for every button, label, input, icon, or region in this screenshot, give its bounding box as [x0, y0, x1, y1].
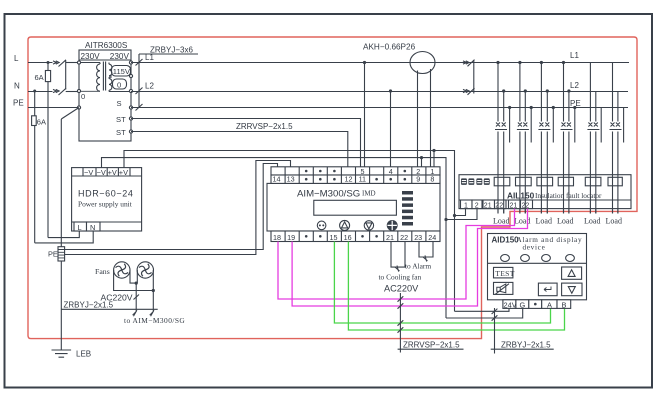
wire S/PE to right — [131, 107, 628, 109]
fans motor right — [137, 262, 153, 278]
wire N switch to transformer — [66, 91, 79, 93]
svg-text:6A: 6A — [35, 73, 44, 82]
slash on fan wire — [134, 295, 140, 300]
load branch group 5: L1 wire — [589, 63, 591, 214]
arrow AC220V into 21-22 — [395, 266, 400, 272]
svg-text:18: 18 — [273, 233, 281, 242]
AIL150 terminal 21b — [509, 200, 521, 209]
wire PE incoming — [28, 107, 79, 109]
fuse FU1 6A on L drop — [47, 63, 49, 238]
junction L2 voltage tap — [389, 89, 392, 92]
svg-text:PE: PE — [48, 250, 58, 259]
svg-text:Load: Load — [606, 217, 622, 226]
AIL150 insulation fault locator box — [459, 175, 631, 209]
svg-text:AKH−0.66P26: AKH−0.66P26 — [363, 43, 416, 52]
svg-text:to Alarm: to Alarm — [405, 261, 431, 270]
label 115V boxed — [112, 66, 131, 77]
wire L incoming — [28, 62, 53, 64]
RS485 wire AIM18 to AIL150 21b (magenta) — [278, 209, 515, 299]
AID150 button down — [562, 283, 582, 296]
arrow to AIM left pair — [133, 310, 154, 316]
AID150 button TEST — [494, 267, 513, 278]
svg-text:ZRBYJ−2x1.5: ZRBYJ−2x1.5 — [64, 301, 114, 310]
fuse FU2 6A on N drop — [34, 91, 36, 243]
svg-text:TEST: TEST — [495, 269, 514, 278]
svg-text:IMD: IMD — [362, 190, 376, 198]
svg-text:23: 23 — [414, 233, 422, 242]
load branch group 3: PE stub — [552, 108, 554, 143]
breaker QF main on L1 — [463, 60, 475, 67]
breaker group 3 — [538, 123, 550, 130]
arrow alarm out — [423, 255, 428, 261]
wire L switch to transformer — [66, 62, 79, 64]
RS485 wire AIM15 to AID150 A (green) — [334, 242, 550, 324]
load wires overlay through AIL150 — [498, 175, 618, 214]
load branch group 4: L1 wire — [563, 63, 565, 214]
wire HDR L to fuse FU1 — [48, 231, 79, 238]
AIM bottom strip dots — [305, 235, 308, 238]
svg-text:device: device — [523, 244, 546, 252]
svg-text:−V: −V — [97, 168, 106, 177]
transformer terminals right — [129, 61, 132, 64]
load branch group 1: L1 wire — [497, 63, 499, 214]
AIL150 indicator square 2 — [468, 178, 474, 185]
svg-text:24: 24 — [428, 233, 436, 242]
svg-text:L: L — [14, 54, 19, 63]
wire N incoming — [28, 91, 53, 93]
junction N-fuse tap — [33, 90, 36, 93]
AIM top terminal strip rows — [271, 167, 440, 175]
svg-text:19: 19 — [287, 233, 295, 242]
svg-text:ZRRVSP−2x1.5: ZRRVSP−2x1.5 — [403, 340, 460, 349]
wire L1 sense to AIM 5 — [364, 63, 366, 167]
svg-text:2: 2 — [475, 202, 479, 209]
AIL150 indicator square 3 — [476, 178, 482, 185]
svg-text:AIM−M300/SG: AIM−M300/SG — [297, 189, 360, 200]
load branch group 6: L2 wire — [617, 91, 619, 214]
svg-text:L: L — [78, 223, 82, 232]
load branch group 2: PE stub — [530, 108, 532, 143]
transformer secondary winding 115V tap — [109, 63, 112, 76]
svg-text:L2: L2 — [145, 82, 154, 91]
AIM top strip cell dividers — [285, 167, 426, 184]
AIL150 terminal 22b — [521, 200, 533, 209]
svg-text:ST: ST — [116, 128, 126, 137]
AIL150 CT window 4 — [558, 177, 573, 186]
RS485 wire AIM16 to AID150 B (green) — [348, 242, 564, 331]
AIM-M300/SG main body — [267, 183, 440, 231]
HDR-60-24 power supply box — [72, 168, 142, 231]
svg-text:HDR−60−24: HDR−60−24 — [78, 189, 133, 199]
AID150 lamp 1 — [501, 255, 510, 262]
svg-text:Power supply unit: Power supply unit — [78, 200, 133, 209]
svg-text:AIL150: AIL150 — [507, 190, 535, 200]
svg-text:AITR6300S: AITR6300S — [85, 41, 128, 50]
cable label ZRRVSP-2x1.5 bottom with leader — [399, 293, 401, 353]
svg-text:A: A — [547, 300, 552, 309]
transformer terminals left — [77, 61, 80, 64]
AIL150 terminal 1 — [461, 200, 473, 209]
fan wiring outer — [114, 270, 154, 291]
load branch group 2: L2 wire — [524, 91, 526, 214]
breaker QF tie — [473, 61, 475, 94]
junction L-fuse tap — [47, 61, 50, 64]
AID150 alarm display box — [488, 234, 587, 300]
svg-text:21: 21 — [484, 202, 492, 209]
svg-text:230V: 230V — [110, 52, 130, 61]
svg-text:8: 8 — [430, 175, 434, 184]
wire PE to AIM 14 (staircase outer) — [65, 161, 291, 255]
svg-text:S: S — [117, 99, 122, 108]
load branch group 3: L1 wire — [540, 63, 542, 214]
AIL150 CT window 1 — [494, 177, 510, 186]
AIL150 indicator square 1 — [461, 178, 467, 185]
svg-text:Load: Load — [557, 217, 573, 226]
AID150 button enter — [538, 283, 557, 296]
wire 0V to AID150 G — [446, 308, 523, 318]
svg-text:Load: Load — [493, 217, 509, 226]
svg-text:to AIM−M300/SG: to AIM−M300/SG — [124, 316, 185, 325]
AIL150 terminal 2 — [472, 200, 482, 209]
AIL150 CT window 3 — [537, 177, 553, 186]
AID150 terminal A — [542, 300, 557, 309]
svg-text:AC220V: AC220V — [384, 283, 419, 293]
AID150 button mute — [494, 282, 513, 294]
cable label ZRBYJ-2x1.5 bottom right with leader — [494, 308, 496, 354]
AIM button menu — [317, 221, 326, 230]
AIM button test fan — [387, 221, 397, 231]
svg-text:ZRBYJ−2x1.5: ZRBYJ−2x1.5 — [501, 340, 551, 349]
wire PE diagonal to transformer S — [61, 108, 79, 120]
AID150 terminal dot — [529, 300, 542, 309]
svg-text:22: 22 — [400, 233, 408, 242]
svg-text:1: 1 — [464, 202, 468, 209]
fan wiring inner — [130, 270, 137, 283]
svg-text:PE: PE — [13, 99, 24, 108]
breaker group 6 — [610, 123, 622, 130]
svg-text:4: 4 — [389, 167, 393, 176]
svg-text:Load: Load — [584, 217, 600, 226]
AIM top strip dots lower row — [305, 178, 308, 181]
svg-text:Load: Load — [536, 217, 552, 226]
transformer primary winding — [97, 63, 100, 92]
svg-text:L1: L1 — [570, 51, 579, 60]
transformer secondary winding lower — [109, 77, 131, 91]
load branch group 5: L2 wire — [595, 91, 597, 214]
RS485 wire AIM19 to AIL150 22b (magenta) — [292, 209, 527, 306]
breaker group 4 — [561, 123, 573, 130]
AID150 terminal B — [557, 300, 571, 309]
fans motor left — [114, 262, 130, 278]
svg-text:L2: L2 — [570, 81, 579, 90]
load branch group 3: L2 wire — [546, 91, 548, 214]
AIM side connector bars — [402, 191, 413, 195]
transformer terminal PE left — [77, 106, 80, 109]
svg-text:+V: +V — [108, 168, 117, 177]
breaker group 2 — [517, 123, 529, 130]
load branch group 4: L2 wire — [568, 91, 570, 214]
svg-text:N: N — [14, 82, 20, 91]
svg-text:Fans: Fans — [95, 267, 110, 276]
load branch group 1: L2 wire — [503, 91, 505, 214]
HDR top terminal strip — [72, 175, 142, 177]
wire HDR N to fuse FU2 — [35, 231, 93, 243]
AIL150 CT window 6 — [608, 177, 622, 186]
svg-text:24V: 24V — [504, 300, 517, 309]
load branch group 4: PE stub — [574, 108, 576, 143]
load branch group 1: PE stub — [509, 108, 511, 143]
junction bus drop to AIM 2 — [420, 156, 423, 159]
svg-text:ST: ST — [116, 115, 126, 124]
load branch group 2: L1 wire — [519, 63, 521, 214]
AID150 panel divider — [488, 262, 587, 264]
red boundary wire loop — [28, 37, 637, 339]
breaker group 1 — [495, 123, 507, 130]
wire 24V to AID150 24V — [455, 308, 510, 311]
AIL150 indicator square 4 — [484, 178, 490, 185]
HDR bottom terminal strip — [72, 221, 142, 223]
wire L2 sense to AIM 4 — [390, 91, 392, 167]
switch QS main 2-pole: N pole — [53, 88, 66, 95]
AIL150 CT window 5 — [585, 177, 601, 186]
svg-text:L1: L1 — [145, 53, 154, 62]
svg-text:2: 2 — [416, 167, 420, 176]
load branch group 6: PE stub — [623, 108, 625, 143]
wire AIM 21-22 AC220V input — [391, 242, 405, 268]
svg-text:AID150: AID150 — [492, 235, 520, 244]
ground LEB — [52, 350, 72, 357]
breaker QF main on L2 — [463, 88, 475, 95]
label 0 boxed — [113, 79, 127, 89]
svg-text:21: 21 — [510, 202, 518, 209]
svg-text:1: 1 — [430, 167, 434, 176]
wire L1 from transformer — [131, 62, 629, 64]
svg-text:0: 0 — [81, 92, 85, 101]
svg-text:ZRBYJ−3x6: ZRBYJ−3x6 — [150, 46, 193, 55]
junction 0V to AIL150 terminal 2 — [444, 218, 447, 221]
svg-text:16: 16 — [344, 233, 352, 242]
junction 24V to AIL150 terminal 1 — [453, 214, 456, 217]
PE busbar — [60, 119, 62, 350]
svg-text:22: 22 — [495, 202, 503, 209]
svg-text:B: B — [562, 300, 567, 309]
svg-text:21: 21 — [386, 233, 394, 242]
AID150 lamp 4 — [566, 255, 575, 262]
svg-text:12: 12 — [345, 175, 353, 184]
wire PE to AIM 13 (staircase inner) — [65, 164, 278, 250]
svg-text:N: N — [90, 223, 95, 232]
svg-text:230V: 230V — [81, 52, 101, 61]
HDR terminal N — [87, 222, 101, 231]
svg-text:6A: 6A — [37, 118, 46, 127]
CT secondary wires to AIM terminals 2,1 — [418, 69, 431, 167]
svg-text:+V: +V — [119, 168, 128, 177]
AID150 button up — [562, 267, 582, 279]
wire ST1 — [131, 119, 361, 167]
AIM bottom terminal strip — [271, 231, 440, 242]
svg-text:5: 5 — [361, 167, 365, 176]
AIM top strip dots upper row — [305, 170, 308, 173]
transformer T1 AITR6300S box — [79, 50, 131, 141]
svg-text:14: 14 — [273, 175, 281, 184]
24V bus -V rail — [102, 158, 447, 220]
AID150 terminal 24V — [503, 300, 516, 309]
breaker group 5 — [587, 123, 599, 130]
svg-text:15: 15 — [330, 233, 338, 242]
transformer core — [103, 62, 105, 91]
AIL150 CT window 2 — [516, 177, 532, 186]
24V bus +V rail — [124, 151, 455, 216]
switch QS main 2-pole: L pole — [53, 60, 66, 67]
svg-text:G: G — [520, 300, 526, 309]
switch QS tie bar — [65, 61, 67, 90]
AIM LCD display — [314, 200, 397, 215]
junction L1 voltage tap — [363, 61, 366, 64]
junction bus drop to AIM 1 — [432, 149, 435, 152]
AIL150 terminal 22a — [495, 200, 507, 209]
AID150 lamp 3 — [542, 255, 551, 262]
wire AIM 23-24 alarm output — [419, 242, 433, 258]
svg-text:11: 11 — [359, 175, 366, 184]
load branch group 5: PE stub — [600, 108, 602, 143]
AIL150 terminal 21a — [483, 200, 495, 209]
svg-text:Alarm and display: Alarm and display — [517, 236, 583, 244]
svg-text:0: 0 — [117, 81, 121, 90]
AIM button up — [340, 220, 350, 230]
AID150 lamp 2 — [521, 255, 530, 262]
wire L2 from transformer — [131, 91, 628, 93]
svg-text:115V: 115V — [113, 67, 131, 76]
svg-text:to Cooling fan: to Cooling fan — [379, 272, 422, 281]
AID150 terminal G — [516, 300, 529, 309]
svg-text:ZRRVSP−2x1.5: ZRRVSP−2x1.5 — [236, 122, 293, 131]
load branch group 6: L1 wire — [612, 63, 614, 214]
wire ST2 — [131, 132, 348, 167]
svg-text:LEB: LEB — [76, 350, 91, 359]
AIM button down — [364, 221, 373, 230]
svg-text:13: 13 — [287, 175, 295, 184]
svg-text:9: 9 — [416, 175, 420, 184]
HDR terminal L — [74, 222, 87, 231]
svg-text:−V: −V — [84, 168, 93, 177]
